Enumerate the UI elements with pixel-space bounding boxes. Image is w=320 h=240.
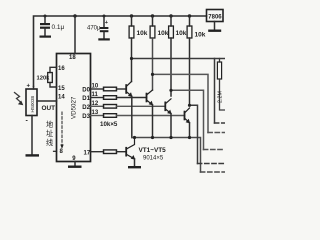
- svg-text:0.1μ: 0.1μ: [52, 24, 65, 31]
- svg-text:D2: D2: [82, 105, 90, 111]
- svg-text:10k: 10k: [176, 30, 187, 37]
- svg-text:16: 16: [58, 66, 65, 72]
- svg-text:D0: D0: [82, 88, 90, 94]
- wire OUT receiver to pin 14: [37, 95, 65, 112]
- transistor VT5: [125, 138, 135, 167]
- svg-text:地: 地: [46, 120, 53, 129]
- transistor VT3: [164, 99, 171, 138]
- wire bus output dashed: [201, 171, 226, 173]
- svg-text:10k: 10k: [158, 30, 169, 37]
- wire pin 18 to rail: [69, 16, 76, 61]
- resistor R9 10k row D3: [91, 114, 185, 118]
- capacitor C1 0.1u: [40, 16, 65, 36]
- svg-text:15: 15: [58, 86, 65, 92]
- wire route output 3: [169, 89, 225, 150]
- svg-text:HS0038: HS0038: [30, 95, 35, 112]
- regulator U2 7806: [207, 10, 224, 22]
- transistor VT1: [125, 82, 132, 138]
- svg-text:17: 17: [84, 150, 91, 156]
- svg-text:10k: 10k: [195, 32, 206, 39]
- svg-text:D3: D3: [82, 114, 90, 120]
- wire route output 1: [130, 57, 225, 123]
- wire receiver top lead: [33, 87, 35, 90]
- wire receiver bottom lead: [31, 116, 33, 155]
- resistor R10 10k row pin17: [91, 150, 127, 154]
- transistor VT2: [146, 90, 154, 138]
- resistor R6 10k row D0: [91, 87, 127, 91]
- node bus junction dots: [133, 136, 191, 139]
- resistor R2 10k: [150, 16, 169, 90]
- svg-text:D1: D1: [82, 96, 90, 102]
- resistor R3 10k: [169, 16, 187, 96]
- resistor R7 10k row D1: [91, 96, 147, 100]
- svg-text:址: 址: [46, 129, 53, 138]
- wire emitter bus: [132, 138, 201, 173]
- svg-text:9014×5: 9014×5: [143, 156, 164, 162]
- label address lines (Chinese): [46, 120, 53, 147]
- wire +V top rail: [34, 16, 207, 87]
- svg-text:10k: 10k: [137, 30, 148, 37]
- svg-text:VT1~VT5: VT1~VT5: [139, 147, 167, 154]
- ground (pin 9): [68, 156, 82, 168]
- svg-text:10k×5: 10k×5: [100, 121, 118, 128]
- IR receiver B1: [26, 84, 38, 125]
- svg-text:OUT: OUT: [42, 105, 56, 112]
- resistor R5 120k oscillator: [37, 67, 57, 87]
- svg-text:+: +: [27, 84, 31, 90]
- pin 8 stub: [54, 150, 57, 152]
- resistor R4 10k: [187, 16, 206, 105]
- svg-text:7806: 7806: [208, 15, 222, 21]
- svg-text:14: 14: [58, 95, 65, 101]
- ground (receiver): [26, 154, 40, 156]
- node address pins 1-8 arrow: [60, 112, 64, 155]
- ground (C2): [98, 38, 110, 40]
- transistor VT4: [184, 108, 191, 138]
- svg-text:470μ: 470μ: [87, 26, 101, 32]
- op-amp U1 decoder VD5027 box: [57, 54, 91, 162]
- resistor R8 10k row D2: [91, 105, 166, 109]
- svg-text:VD5027: VD5027: [71, 96, 78, 119]
- resistor R1 10k: [129, 16, 148, 82]
- svg-text:18: 18: [69, 55, 76, 61]
- wire route output 2: [151, 73, 225, 133]
- ground (7806): [208, 22, 221, 32]
- capacitor C2 470u electrolytic: [87, 16, 109, 38]
- svg-text:120k: 120k: [37, 76, 51, 82]
- ground (C1): [40, 36, 52, 38]
- resistor R11 2.2M: [217, 59, 225, 111]
- svg-text:2.2M: 2.2M: [218, 91, 224, 103]
- IR rays arrows: [15, 93, 22, 103]
- ground (VT5 emitter): [128, 166, 141, 168]
- wire route output 4: [188, 104, 225, 164]
- svg-text:线: 线: [46, 138, 53, 147]
- node rail junction dots: [44, 14, 192, 17]
